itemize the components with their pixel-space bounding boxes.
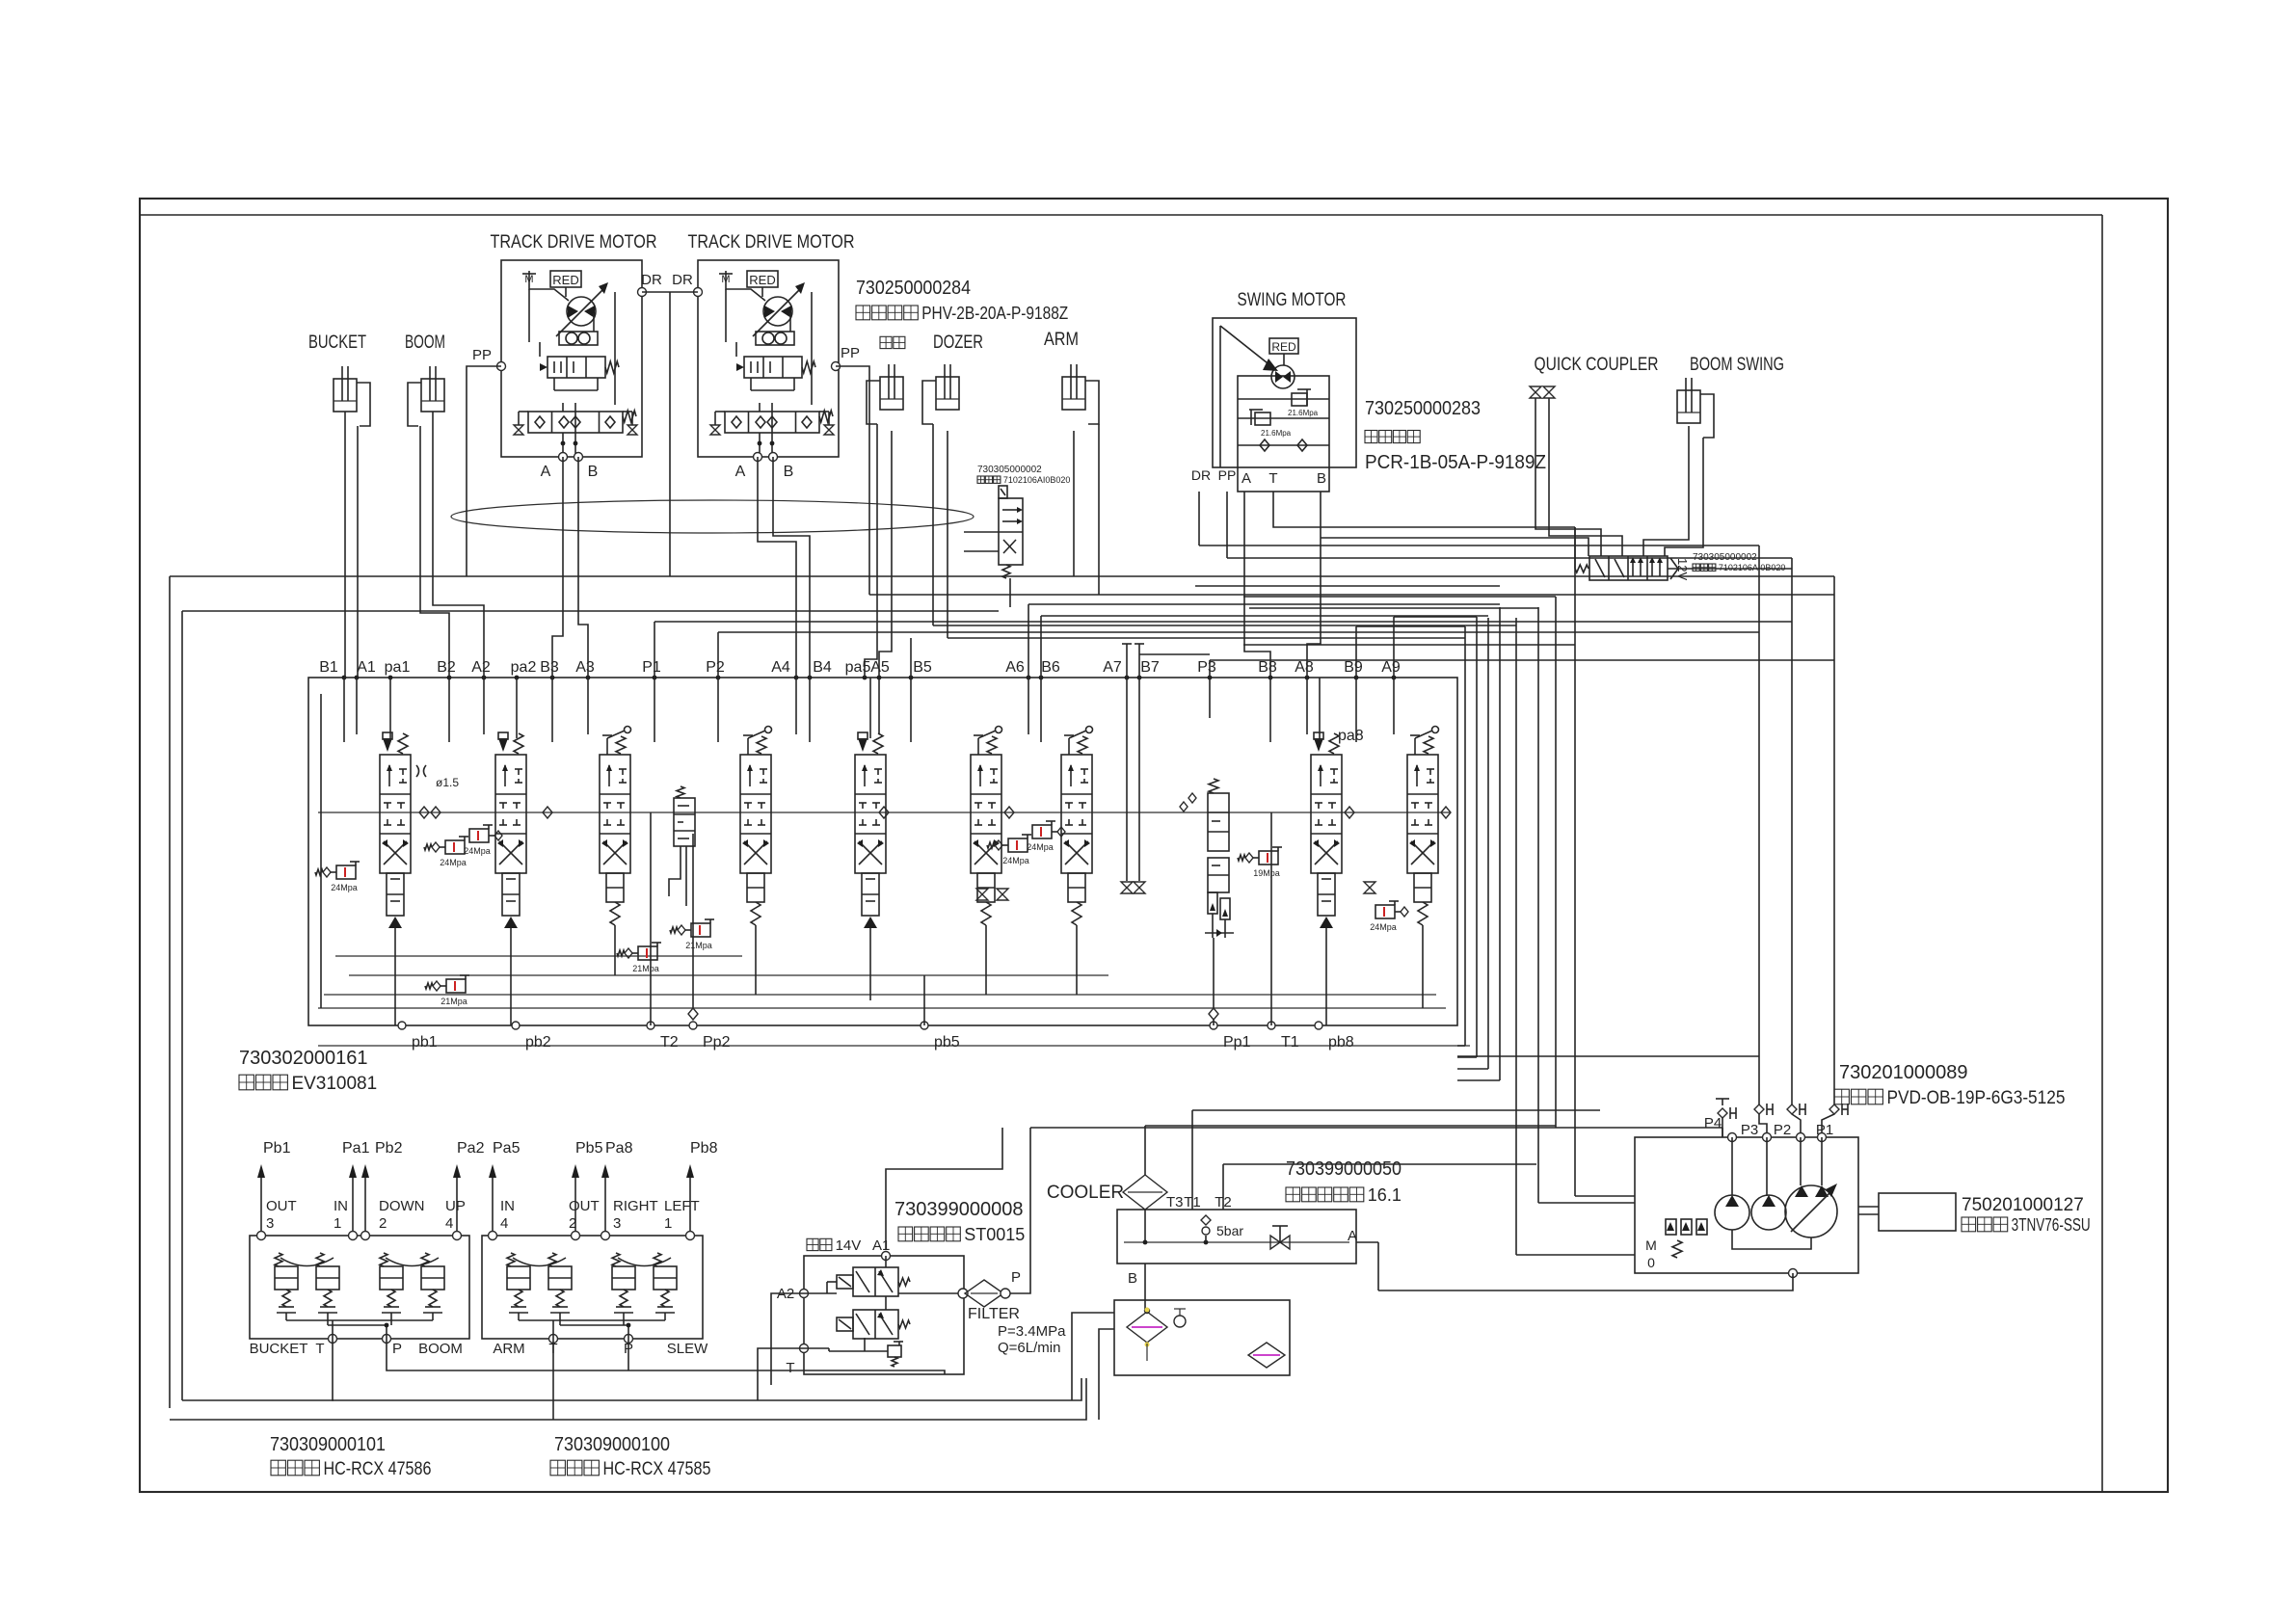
wire trunk y669	[1243, 644, 1575, 646]
wire boom swing left drop	[1643, 426, 1689, 556]
svg-text:19Mpa: 19Mpa	[1253, 868, 1280, 878]
wire swing A drop to B8	[1244, 492, 1270, 678]
port B of right travel motor	[769, 453, 778, 462]
svg-text:RED: RED	[552, 273, 578, 287]
svg-text:A8: A8	[1295, 659, 1314, 676]
wire P4 drop to pump	[1722, 1128, 1723, 1137]
shutoff valve in return block	[1270, 1236, 1280, 1249]
svg-text:PHV-2B-20A-P-9188Z: PHV-2B-20A-P-9188Z	[921, 304, 1068, 323]
pilot line labels row	[263, 1140, 718, 1157]
wire right trunk drop 3	[1833, 576, 1835, 1104]
svg-text:B: B	[784, 464, 794, 480]
pump internal manifold	[1732, 1230, 1811, 1249]
svg-text:M: M	[1645, 1237, 1657, 1253]
mid bypass valve between S3 and S4	[669, 786, 695, 906]
svg-text:T: T	[786, 1360, 794, 1376]
pilot joystick block left-hand (arm/slew)	[482, 1232, 703, 1344]
closed port X pair near A6	[976, 889, 988, 894]
check valve 5bar	[1201, 1215, 1211, 1225]
svg-text:B9: B9	[1344, 659, 1363, 676]
wire selector1 bottom drop	[1009, 578, 1011, 607]
svg-text:P: P	[1011, 1269, 1021, 1286]
svg-text:RED: RED	[749, 273, 775, 287]
wire dozer trunk b	[948, 637, 1465, 639]
svg-text:BOOM SWING: BOOM SWING	[1690, 355, 1784, 375]
wire port stub x679	[654, 678, 655, 742]
pump control spring	[1672, 1240, 1682, 1258]
pilot rail check diamond x452	[431, 807, 441, 818]
wire pump port c	[1800, 1137, 1802, 1185]
port DR of left travel motor	[638, 288, 647, 297]
pilot rail check diamond x1047	[1004, 807, 1014, 818]
wire A2 port jog	[483, 636, 485, 678]
cylinder port BOOM SWING	[1677, 378, 1714, 438]
wire cooler feed v	[1144, 1126, 1146, 1176]
svg-text:7102106AI0B020: 7102106AI0B020	[1719, 563, 1786, 572]
wire T2 riser	[1222, 1164, 1224, 1210]
pilot rail check diamond x1400	[1345, 807, 1354, 818]
wire vert drop right of block 2	[1476, 617, 1478, 1057]
svg-text:ST0015: ST0015	[964, 1225, 1025, 1244]
wire B2 riser from boom	[420, 426, 449, 628]
pilot rail check diamond x1500	[1441, 807, 1451, 818]
test point P1	[1829, 1104, 1848, 1115]
svg-text:Pa2: Pa2	[457, 1140, 485, 1157]
wire swing PP drop	[1226, 492, 1228, 558]
svg-text:2: 2	[379, 1215, 387, 1232]
wire A2 out left	[771, 1293, 804, 1385]
drawing frame outer border	[140, 199, 2168, 1492]
svg-text:24Mpa: 24Mpa	[464, 846, 491, 856]
wire tank stub left a	[1072, 1313, 1114, 1400]
wire left margin drop B	[181, 611, 183, 1400]
wire B1 riser from bucket	[344, 412, 346, 678]
svg-text:IN: IN	[334, 1198, 348, 1214]
selector valve V2 730305000002	[1575, 556, 1690, 580]
port A2 of LP group	[800, 1290, 809, 1298]
pump control boxes	[1666, 1219, 1676, 1235]
wire B2 port jog	[448, 628, 450, 678]
svg-text:24Mpa: 24Mpa	[1027, 842, 1054, 852]
wire cyl dozer right drop	[947, 431, 948, 638]
svg-text:P1: P1	[642, 659, 661, 676]
svg-text:P3: P3	[1197, 659, 1216, 676]
pump-engine shaft	[1858, 1206, 1879, 1208]
svg-text:730399000050: 730399000050	[1286, 1158, 1402, 1180]
wire vert drop right of block 3	[1487, 618, 1489, 1069]
svg-text:730201000089: 730201000089	[1839, 1062, 1967, 1083]
wire A9 link right	[1394, 616, 1477, 618]
svg-text:730309000101: 730309000101	[270, 1434, 386, 1455]
wire port stub x1407	[1355, 678, 1357, 742]
wire port stub x610	[587, 678, 589, 734]
return filter in tank	[1248, 1343, 1285, 1368]
grouping ellipse around travel lines	[451, 500, 974, 533]
wire swing area trunk a	[1199, 545, 1759, 546]
wire A6 trunk	[1028, 603, 1500, 605]
wire A6 riser	[1028, 604, 1029, 678]
drawing frame inner top line	[140, 214, 2102, 216]
valve section S2 boom spool	[495, 732, 526, 930]
valve block bottom port rings	[398, 1022, 1322, 1029]
valve section S8 slew spool	[1311, 732, 1342, 930]
valve block inner left vertical	[320, 694, 322, 1008]
wire DR drop	[669, 292, 671, 576]
svg-text:DR: DR	[1191, 467, 1211, 483]
svg-text:A9: A9	[1381, 659, 1401, 676]
svg-text:P3: P3	[1741, 1122, 1758, 1138]
pump group outline	[1635, 1137, 1858, 1273]
wire B6 riser	[1040, 616, 1042, 678]
wire B7 stub T	[1138, 644, 1140, 678]
tank internal drop	[1146, 1344, 1148, 1361]
wire selector1 left stub a	[964, 531, 999, 533]
svg-text:B8: B8	[1258, 659, 1277, 676]
wire cyl arm left drop	[1073, 431, 1075, 576]
label 伸缩	[880, 336, 905, 348]
cylinder port BUCKET	[334, 366, 370, 426]
svg-text:24Mpa: 24Mpa	[440, 858, 467, 867]
wire pilot to pump h3	[1575, 1195, 1635, 1197]
relief valve 19Mpa near S8	[1238, 847, 1282, 878]
part name 回转马达	[1365, 431, 1420, 443]
svg-text:pa2: pa2	[511, 659, 537, 676]
svg-text:PP: PP	[841, 345, 860, 361]
wire A1 riser from bucket	[357, 426, 359, 678]
valve block pilot rail	[318, 811, 1451, 813]
wire P3 inner stub	[1209, 678, 1211, 718]
wire hline wrap under block	[1457, 1079, 1500, 1081]
wire P3 tp to port	[1759, 1114, 1767, 1137]
wire swing DR drop	[1198, 492, 1200, 545]
wire left margin drop A	[169, 576, 171, 1408]
wire port stub x826	[795, 678, 797, 734]
wire pb5 drop	[923, 975, 925, 1025]
svg-text:pb5: pb5	[934, 1034, 960, 1051]
wire B5 riser	[910, 638, 912, 678]
wire swing T to right	[1273, 492, 1575, 527]
main piston pump circle	[1785, 1185, 1837, 1237]
svg-text:730302000161: 730302000161	[239, 1048, 367, 1069]
svg-text:A: A	[541, 464, 551, 480]
main control valve block outline	[308, 678, 1457, 1025]
svg-text:B: B	[588, 464, 599, 480]
wire port stub x466	[448, 678, 450, 742]
svg-text:A5: A5	[870, 659, 890, 676]
orifice symbol 1.5	[416, 765, 426, 777]
svg-text:pa8: pa8	[1338, 728, 1364, 744]
svg-text:B6: B6	[1041, 659, 1060, 676]
wire dozer trunk a	[933, 625, 1516, 626]
svg-text:Pb8: Pb8	[690, 1140, 718, 1157]
wire boom swing right drop	[1665, 438, 1703, 556]
wire B9 link right	[1356, 625, 1465, 627]
wire B9 riser	[1355, 626, 1357, 678]
LP internal wire mid	[885, 1296, 887, 1310]
svg-text:P4: P4	[1704, 1115, 1722, 1131]
wire port stub x1182	[1138, 678, 1140, 881]
cylinder port BOOM	[408, 366, 444, 426]
bypass check in tank	[1174, 1316, 1186, 1327]
wire PP right trunk	[869, 594, 1834, 596]
part name 右手柄HC-RCX 47586	[271, 1459, 431, 1479]
quick coupler check X right	[1543, 386, 1555, 392]
wire pilot P2 drop	[627, 1339, 629, 1370]
LP internal wire A1	[885, 1256, 887, 1267]
svg-text:A4: A4	[771, 659, 790, 676]
svg-text:21Mpa: 21Mpa	[441, 997, 467, 1006]
svg-text:pb2: pb2	[525, 1034, 551, 1051]
svg-text:OUT: OUT	[569, 1198, 600, 1214]
wire port stub x370	[356, 678, 358, 734]
wire Pp1 drop	[1213, 938, 1215, 1008]
wire port stub x912	[878, 678, 880, 734]
svg-text:Pp2: Pp2	[703, 1034, 731, 1051]
swing motor U3	[1213, 318, 1356, 492]
svg-text:A2: A2	[471, 659, 491, 676]
valve block internal rail 4	[318, 1007, 1446, 1009]
svg-text:24Mpa: 24Mpa	[331, 883, 358, 892]
svg-text:pb1: pb1	[412, 1034, 438, 1051]
svg-text:pb8: pb8	[1328, 1034, 1354, 1051]
LP group relief valve	[888, 1345, 901, 1357]
LP internal wire T	[864, 1338, 866, 1351]
wire port stub x357	[343, 678, 345, 742]
wire trunk v 1634	[1574, 527, 1576, 1196]
svg-text:ø1.5: ø1.5	[436, 776, 459, 789]
wire trunk v 1596	[1537, 607, 1539, 1203]
port B of left travel motor	[574, 453, 583, 462]
wire B7 to P3 link	[1139, 653, 1210, 655]
svg-text:24Mpa: 24Mpa	[1370, 922, 1397, 932]
svg-text:Pa5: Pa5	[493, 1140, 521, 1157]
valve block bottom port labels	[412, 1034, 1354, 1051]
wire cyl dozer left drop	[932, 424, 934, 625]
relief valve 24Mpa between S1-S2 b	[464, 825, 502, 856]
wire trunk y619	[1243, 596, 1556, 598]
svg-text:T3: T3	[1166, 1194, 1184, 1211]
port A of right travel motor	[754, 453, 762, 462]
pump port ring d	[1818, 1133, 1827, 1142]
wire P2 trunk	[718, 631, 1759, 633]
svg-text:RED: RED	[1271, 340, 1296, 354]
valve section S6 dozer spool	[971, 727, 1002, 926]
check diamond above Pp1	[1209, 1008, 1218, 1020]
valve section S7 spool	[1061, 727, 1093, 926]
wire block right h 1096	[1457, 1055, 1759, 1057]
wire pump port a	[1731, 1137, 1733, 1195]
wire port stub x1356	[1306, 678, 1308, 734]
valve block internal rail 2	[349, 974, 1108, 976]
svg-text:PVD-OB-19P-6G3-5125: PVD-OB-19P-6G3-5125	[1886, 1088, 2065, 1108]
wire port stub x1318	[1269, 678, 1271, 742]
svg-text:730399000008: 730399000008	[894, 1199, 1023, 1220]
travel motor U1 (left track drive)	[501, 260, 642, 457]
wire tank stub left b	[1099, 1329, 1114, 1420]
pilot joystick block right-hand (bucket/boom)	[250, 1232, 469, 1344]
selector valve V2 name 选择阀7102106AI0B020	[1693, 563, 1785, 572]
LP internal wire A2	[804, 1292, 837, 1294]
svg-text:DR: DR	[641, 272, 662, 288]
relief valve 21Mpa near Pp2	[670, 919, 714, 950]
part name 多路阀EV310081	[239, 1074, 377, 1094]
svg-text:P: P	[392, 1341, 402, 1357]
wire pb2 drop	[510, 930, 512, 1025]
wire vert drop right of block 4	[1499, 607, 1501, 1080]
wire quick coupler left drop	[1535, 398, 1601, 556]
svg-text:3: 3	[266, 1215, 274, 1232]
wire P4 stub	[1722, 1118, 1723, 1137]
wire port stub x745	[717, 678, 719, 742]
wire swing B to right	[1321, 538, 1589, 556]
part name 复合回油块16.1	[1286, 1185, 1402, 1205]
wire P1 tp to port	[1822, 1114, 1834, 1137]
relief valve 24Mpa between S5-S6 a	[987, 835, 1031, 865]
wire S4 drop	[755, 925, 757, 995]
valve block top port labels row	[319, 659, 1401, 676]
svg-text:M: M	[721, 274, 730, 285]
return manifold block 730399000050	[1117, 1210, 1356, 1264]
svg-text:P2: P2	[1774, 1122, 1791, 1138]
test point P2	[1787, 1104, 1805, 1115]
wire S3 drop	[614, 925, 616, 975]
pump port ring a	[1728, 1133, 1737, 1142]
svg-text:T: T	[315, 1341, 324, 1357]
svg-text:4: 4	[500, 1215, 508, 1232]
pilot rail check diamond x917	[879, 807, 889, 818]
relief valve 24Mpa near S9	[1370, 901, 1408, 932]
svg-text:PCR-1B-05A-P-9189Z: PCR-1B-05A-P-9189Z	[1365, 452, 1546, 473]
svg-text:730250000284: 730250000284	[856, 278, 971, 299]
valve block internal rail 3	[324, 994, 1436, 996]
svg-text:Q=6L/min: Q=6L/min	[998, 1340, 1060, 1356]
wire long bottom line 1	[170, 1378, 1086, 1420]
svg-text:EV310081: EV310081	[291, 1074, 377, 1094]
cooler HE1	[1123, 1175, 1167, 1210]
filter F1 outlet ring P	[1001, 1289, 1010, 1298]
wire right trunk drop 1	[1758, 545, 1760, 1104]
svg-text:Pa8: Pa8	[605, 1140, 633, 1157]
svg-text:DOWN: DOWN	[379, 1198, 425, 1214]
wire pa2 pilot feed	[516, 678, 518, 738]
svg-text:SLEW: SLEW	[667, 1341, 708, 1357]
wire Pp1 lower stub	[1213, 1020, 1215, 1025]
check diamond above Pp2	[688, 1008, 698, 1020]
gear pump 1 circle	[1715, 1195, 1749, 1230]
wire P3 riser	[1209, 660, 1211, 678]
svg-text:BOOM: BOOM	[418, 1341, 463, 1357]
travel motor U2 (right track drive)	[698, 260, 839, 457]
gear pump 2 circle	[1751, 1195, 1786, 1230]
port T of LP group	[800, 1344, 809, 1353]
wire A7 stub T	[1126, 644, 1128, 678]
svg-text:FILTER: FILTER	[968, 1306, 1020, 1322]
wire pa1 pilot feed	[389, 678, 391, 738]
wire P1 trunk	[654, 621, 1792, 623]
cylinder port DOZER	[922, 364, 959, 424]
part name 液压泵PVD-OB-19P-6G3-5125	[1834, 1088, 2065, 1108]
svg-text:PP: PP	[472, 347, 492, 363]
wire B7 T cap	[1135, 643, 1144, 645]
wire A out right	[1356, 1241, 1378, 1243]
valve section S1 bucket spool	[380, 732, 411, 930]
svg-text:ARM: ARM	[493, 1341, 524, 1357]
wire A1 up	[886, 1128, 1002, 1250]
wire pump drain	[1378, 1273, 1793, 1290]
wire pilot to pump h1	[1516, 1254, 1635, 1256]
wire T1 drop	[1270, 812, 1272, 1025]
selector valve V1 730305000002	[999, 486, 1023, 578]
svg-text:Pb2: Pb2	[375, 1140, 403, 1157]
svg-text:DR: DR	[672, 272, 693, 288]
port A of left travel motor	[559, 453, 568, 462]
wire port stub x1080	[1040, 678, 1042, 742]
closed port X near B9	[1364, 882, 1375, 888]
wire quick coupler right drop	[1549, 398, 1622, 556]
port PP of right travel motor	[832, 362, 841, 371]
test point P3	[1754, 1104, 1773, 1115]
wire S7 drop	[1076, 925, 1078, 995]
drawing frame inner right line	[2101, 215, 2103, 1492]
wire pilot P gallery	[387, 1339, 945, 1374]
wire swing area trunk b	[1227, 557, 1792, 559]
svg-text:A: A	[1348, 1228, 1357, 1244]
svg-text:M: M	[524, 274, 533, 285]
wire 5bar drop	[1205, 1236, 1207, 1242]
tank block outline	[1114, 1300, 1290, 1375]
wire left drop link	[182, 1399, 334, 1401]
wire port stub x502	[483, 678, 485, 734]
svg-text:pa1: pa1	[385, 659, 411, 676]
wire cyl shensuo right drop	[879, 431, 892, 678]
port DR right ring	[694, 288, 703, 297]
wire port stub x1446	[1393, 678, 1395, 734]
port A1 of LP group	[882, 1252, 891, 1261]
svg-text:DOZER: DOZER	[933, 333, 983, 353]
wire trunk y631	[1249, 607, 1538, 609]
wire port stub x1067	[1028, 678, 1029, 734]
relief valve 21Mpa below S3	[425, 975, 469, 1006]
svg-text:1: 1	[334, 1215, 341, 1232]
svg-text:P=3.4MPa: P=3.4MPa	[998, 1323, 1066, 1340]
svg-text:pa5: pa5	[845, 659, 871, 676]
svg-text:B: B	[1317, 470, 1326, 487]
wire T1 riser	[1191, 1110, 1193, 1210]
solenoid valve Y1 of LP group	[837, 1267, 910, 1296]
wire selector2 out right upper	[1668, 568, 1792, 570]
wire hline to block right 1	[1457, 1045, 1465, 1047]
relief valve 24Mpa between S1-S2 a	[424, 837, 468, 867]
pilot direction labels	[266, 1198, 700, 1232]
svg-text:21Mpa: 21Mpa	[685, 941, 712, 950]
svg-text:B3: B3	[540, 659, 559, 676]
svg-text:B7: B7	[1140, 659, 1160, 676]
svg-text:OUT: OUT	[266, 1198, 297, 1214]
wire S6 drop	[985, 925, 987, 995]
pump port ring c	[1797, 1133, 1805, 1142]
svg-text:T1: T1	[1281, 1034, 1299, 1051]
wire pump port b	[1766, 1137, 1768, 1195]
svg-text:ARM: ARM	[1044, 330, 1079, 350]
wire cooler feed h	[1145, 1125, 1556, 1127]
wire B6 trunk	[1041, 615, 1488, 617]
cylinder port ARM	[1062, 364, 1099, 424]
svg-text:14V: 14V	[836, 1237, 862, 1254]
svg-text:TRACK DRIVE MOTOR: TRACK DRIVE MOTOR	[688, 232, 855, 253]
wire port stub x840	[809, 678, 811, 742]
valve block sub line	[318, 1045, 1470, 1047]
valve section S9 boom-swing spool	[1407, 727, 1439, 926]
